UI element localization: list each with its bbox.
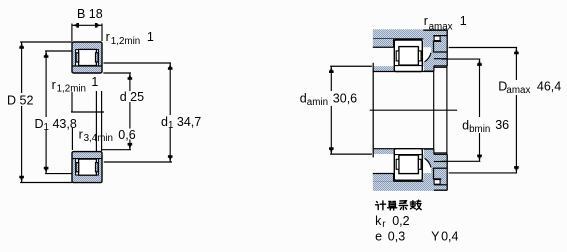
D_a dimension line (515, 48, 517, 81)
svg-text:D1 43,8: D1 43,8 (35, 117, 77, 133)
svg-text:d1 34,7: d1 34,7 (161, 115, 201, 131)
flange ring curve top (423, 47, 431, 62)
abutment column top (423, 30, 447, 71)
inner band top line (73, 65, 102, 67)
d1 dimension extension lines (104, 62, 172, 64)
shaft shoulder strip bottom (373, 149, 395, 154)
svg-text:1,2min: 1,2min (111, 36, 140, 47)
svg-text:30,6: 30,6 (333, 92, 357, 106)
bearing top section right figure (394, 40, 422, 72)
D1 dimension line (45, 51, 47, 117)
housing top band (373, 29, 447, 39)
housing bottom shoulder (373, 174, 394, 182)
svg-text:1: 1 (147, 30, 154, 44)
svg-text:amin: amin (307, 97, 328, 108)
d_a dimension line (330, 66, 332, 91)
svg-text:r: r (424, 14, 428, 28)
d_b dimension line (479, 59, 481, 117)
bearing bottom section right figure (394, 149, 422, 181)
svg-text:amax: amax (506, 85, 530, 96)
svg-text:1: 1 (91, 75, 98, 89)
label 计算系数 (calculation factors, drawn strokes) (376, 200, 422, 210)
svg-text:amax: amax (429, 22, 453, 33)
计 (376, 201, 386, 210)
svg-text:d 25: d 25 (120, 90, 144, 104)
svg-text:1,2min: 1,2min (57, 84, 86, 95)
d_b extension lines (442, 58, 481, 60)
svg-text:0,4: 0,4 (441, 229, 458, 243)
D dimension line (21, 42, 23, 93)
算 (388, 201, 397, 210)
系 (399, 201, 407, 210)
svg-text:r: r (52, 78, 56, 92)
axis line left figure (71, 111, 104, 113)
svg-text:e: e (375, 229, 382, 243)
svg-text:Y: Y (431, 229, 440, 243)
数 (410, 200, 421, 210)
svg-text:0,2: 0,2 (392, 214, 409, 228)
white cavity between rings (76, 50, 99, 66)
shaft step gap lines (434, 66, 447, 68)
svg-text:d: d (462, 119, 469, 133)
d dimension extension lines (103, 72, 131, 74)
svg-text:3,4min: 3,4min (84, 133, 113, 144)
cage blocks top section (76, 53, 79, 62)
relief groove hole top (434, 36, 440, 41)
svg-text:r: r (79, 128, 83, 142)
shaft shoulder surface lines (330, 65, 372, 67)
svg-text:0,3: 0,3 (388, 229, 405, 243)
svg-text:B 18: B 18 (77, 7, 103, 21)
svg-text:46,4: 46,4 (537, 80, 561, 94)
svg-text:bmin: bmin (469, 124, 490, 135)
D dimension extension lines (20, 41, 72, 43)
shaft shoulder face (372, 63, 374, 158)
svg-text:k: k (375, 214, 382, 228)
svg-text:1: 1 (460, 14, 467, 28)
B dimension extension ticks (71, 24, 73, 42)
column left foot on seat (424, 66, 434, 71)
auxiliary vertical lines around bore (71, 92, 73, 112)
D1 dimension extension lines (45, 50, 72, 52)
D_a extension lines (449, 47, 517, 49)
axis line right figure (370, 109, 457, 111)
shaft shoulder strip top (373, 66, 395, 71)
svg-text:36: 36 (495, 118, 509, 132)
shaft end face (446, 66, 448, 154)
d_b surface line inside column (434, 58, 447, 60)
d1 dimension line (169, 63, 171, 115)
svg-text:0,6: 0,6 (118, 128, 135, 142)
svg-text:d: d (300, 92, 307, 106)
shaft seat lines (373, 71, 434, 73)
shaft step face (433, 66, 435, 154)
housing top shoulder (373, 39, 394, 47)
B dimension line (72, 24, 102, 26)
roller top section (79, 49, 97, 65)
housing bottom band (373, 181, 447, 191)
bottom section body (mirror) (72, 152, 102, 183)
relief groove hole bottom (434, 180, 440, 185)
svg-text:r: r (106, 30, 110, 44)
abutment column bottom (mirror) (423, 149, 447, 190)
d dimension line (129, 73, 131, 91)
cage blocks bottom section (76, 163, 79, 172)
roller bottom section (79, 159, 97, 175)
top section body (outer+inner rings hatched) (72, 42, 102, 73)
svg-text:D 52: D 52 (7, 94, 33, 108)
flange ring curve bottom (423, 158, 431, 173)
